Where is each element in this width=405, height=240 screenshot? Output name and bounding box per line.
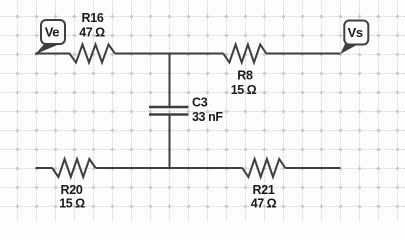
label R20 [60, 183, 82, 197]
svg-text:Ve: Ve [45, 25, 60, 40]
svg-text:Vs: Vs [348, 25, 363, 40]
resistor R21 [242, 159, 285, 177]
label R8 value 15 Ω [231, 83, 257, 97]
wire: top-middle segment (R16 to R8, through node with C3) [115, 53, 224, 55]
label R16 value 47 Ω [79, 26, 105, 40]
wire: top-left segment (Ve to R16) [35, 53, 70, 55]
svg-text:47 Ω: 47 Ω [251, 197, 277, 211]
svg-text:R20: R20 [60, 183, 82, 197]
wire: capacitor branch, upper (top node down to C3) [169, 53, 171, 108]
wire: top-right segment (R8 to Vs) [266, 53, 340, 55]
label R20 value 15 Ω [59, 197, 85, 211]
label R8 [237, 69, 253, 83]
svg-text:15 Ω: 15 Ω [59, 197, 85, 211]
svg-text:R16: R16 [81, 11, 103, 25]
label R21 value 47 Ω [251, 197, 277, 211]
label R16 [81, 11, 103, 25]
svg-text:47 Ω: 47 Ω [79, 26, 105, 40]
svg-text:33 nF: 33 nF [192, 110, 223, 124]
resistor R8 [223, 45, 266, 63]
wire: capacitor branch, lower (C3 down to bottom node) [169, 115, 171, 170]
label C3 value 33 nF [192, 110, 223, 124]
wire: bottom-left segment [36, 167, 53, 169]
capacitor C3 [149, 107, 189, 115]
svg-text:R8: R8 [237, 69, 253, 83]
svg-text:15 Ω: 15 Ω [231, 83, 257, 97]
svg-text:C3: C3 [192, 96, 208, 110]
label C3 [192, 96, 208, 110]
resistor R16 [70, 45, 116, 63]
node label Vs (flag) [340, 21, 368, 55]
node label Ve (flag) [35, 20, 65, 54]
wire: bottom-right segment [285, 167, 340, 169]
wire: bottom-middle segment (R20 to R21, through node with C3) [96, 167, 243, 169]
svg-text:R21: R21 [252, 183, 274, 197]
label R21 [252, 183, 274, 197]
resistor R20 [52, 159, 95, 177]
